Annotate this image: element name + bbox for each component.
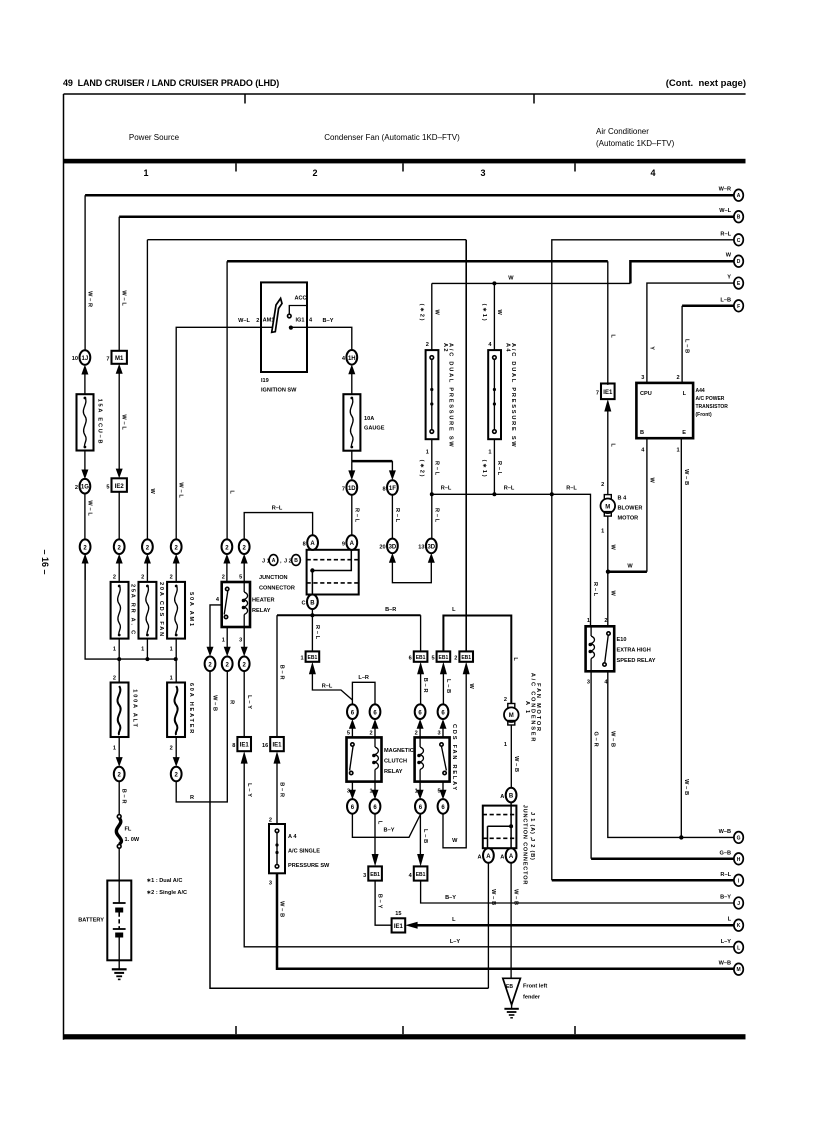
fuse 10A GAUGE: [343, 394, 384, 451]
svg-text:L–B: L–B: [445, 679, 451, 695]
svg-text:B–Y: B–Y: [384, 828, 395, 834]
svg-text:A 1: A 1: [524, 701, 530, 715]
arrow below EB1 5: [440, 662, 451, 705]
svg-text:L: L: [609, 443, 615, 448]
oval 2 heater sw: [222, 539, 233, 554]
label W col3: [149, 488, 155, 495]
svg-text:B 4: B 4: [618, 496, 628, 502]
svg-text:W: W: [609, 544, 615, 551]
wire A4 to bus: [481, 439, 502, 494]
lower JC labels: [522, 805, 536, 886]
page number 16: [40, 549, 50, 574]
bottom tick c: [574, 1026, 576, 1034]
svg-text:W: W: [149, 488, 155, 495]
svg-text:A 4: A 4: [505, 343, 511, 352]
svg-text:A: A: [500, 794, 504, 800]
wire C left W: [147, 240, 466, 540]
wire B W-L top: [119, 217, 734, 351]
band tick c: [574, 163, 576, 171]
svg-text:A/C CONDENSER: A/C CONDENSER: [530, 673, 536, 743]
top band bar: [64, 159, 746, 164]
svg-text:(∗1): (∗1): [481, 304, 487, 323]
wire L vertical to heater relay: [227, 261, 234, 539]
connector 1F: [382, 480, 397, 495]
svg-text:5: 5: [347, 731, 350, 737]
svg-text:2: 2: [504, 697, 507, 703]
bus junction dot col4: [174, 657, 178, 661]
svg-text:FAN MOTOR: FAN MOTOR: [535, 683, 541, 733]
wire L-B CDS to EB1 4: [417, 814, 428, 867]
B-R bus corner down: [277, 615, 285, 737]
svg-text:3: 3: [363, 873, 366, 879]
wire R-L 1D to A9: [352, 495, 360, 536]
label W-L mid col2: [121, 414, 127, 431]
svg-text:1D: 1D: [348, 486, 356, 492]
svg-text:2: 2: [676, 375, 679, 381]
L bus: [443, 607, 511, 704]
svg-text:2: 2: [113, 575, 116, 581]
svg-text:JUNCTION CONNECTOR: JUNCTION CONNECTOR: [522, 805, 528, 886]
arrow into oval2 heater: [173, 757, 180, 767]
svg-text:9: 9: [342, 542, 345, 548]
oval 6 MC coil bottom: [370, 799, 381, 814]
CDS pin3 arrow: [437, 719, 446, 737]
svg-text:– 16 –: – 16 –: [40, 549, 50, 574]
section title Air Conditioner: [596, 127, 675, 148]
svg-text:K: K: [737, 923, 741, 929]
svg-text:A 4: A 4: [288, 834, 297, 840]
svg-text:A: A: [500, 854, 504, 860]
svg-text:L: L: [377, 821, 383, 826]
svg-text:R–L: R–L: [496, 461, 502, 477]
svg-text:(∗1): (∗1): [481, 460, 487, 479]
label L below IE1 7: [601, 443, 615, 488]
oval 6 CDS coil top: [415, 704, 426, 719]
svg-text:SPEED RELAY: SPEED RELAY: [617, 658, 656, 664]
svg-text:B–Y: B–Y: [445, 895, 456, 901]
svg-text:B: B: [310, 600, 315, 606]
svg-text:CPU: CPU: [640, 391, 652, 397]
svg-text:B–R: B–R: [422, 678, 428, 695]
svg-text:8: 8: [382, 486, 385, 492]
svg-text:IE1: IE1: [603, 390, 613, 396]
wire R-L to junction A8: [244, 506, 312, 540]
svg-text:1: 1: [113, 746, 116, 752]
node B: [719, 208, 743, 222]
svg-text:R–L: R–L: [720, 231, 731, 237]
arrow into 1D: [348, 470, 355, 480]
wire IE2 to oval: [118, 492, 120, 540]
A44 AC power transistor: [636, 383, 728, 438]
svg-text:20A CDS FAN: 20A CDS FAN: [158, 582, 164, 638]
arrow into IE1 7: [604, 399, 611, 495]
svg-text:10: 10: [72, 356, 78, 362]
svg-text:TRANSISTOR: TRANSISTOR: [696, 404, 729, 410]
wire A2 to 3D13: [432, 494, 440, 538]
CDS fan relay: [415, 724, 457, 792]
wire W-B heater ground run: [210, 671, 488, 988]
ground symbol: [504, 1005, 518, 1018]
band tick a: [235, 163, 237, 171]
svg-text:J 2 (B): J 2 (B): [529, 838, 535, 861]
svg-text:IGNITION SW: IGNITION SW: [261, 388, 297, 394]
heater relay pin labels top: [222, 575, 242, 581]
svg-text:A: A: [486, 854, 491, 860]
node L: [721, 939, 744, 953]
node H: [719, 850, 743, 864]
svg-text:6: 6: [409, 656, 412, 662]
arrow into IE1 8: [241, 751, 248, 763]
arrow into IE1 16: [274, 751, 281, 824]
heater relay: [222, 582, 275, 627]
svg-text:2: 2: [170, 575, 173, 581]
connector 1D: [342, 480, 357, 495]
svg-text:2: 2: [170, 746, 173, 752]
svg-text:16: 16: [262, 743, 268, 749]
oval 6 MC sw top: [347, 704, 358, 719]
connector EB1 6: [409, 615, 428, 662]
wire L to K circle: [411, 917, 734, 925]
svg-text:1H: 1H: [348, 356, 356, 362]
wire E pin W-B long: [676, 438, 688, 837]
left page border: [63, 94, 65, 1040]
MC pin5 arrow: [347, 719, 356, 737]
fuse 60A HEATER: [167, 676, 194, 763]
svg-text:W–L: W–L: [238, 318, 250, 324]
svg-text:R–L: R–L: [592, 582, 598, 598]
svg-text:∗1 : Dual A/C: ∗1 : Dual A/C: [147, 878, 183, 884]
svg-text:L: L: [728, 917, 732, 923]
svg-text:1: 1: [143, 168, 148, 178]
oval 2 pin1: [222, 657, 233, 672]
svg-text:A/C DUAL PRESSURE SW: A/C DUAL PRESSURE SW: [448, 343, 454, 449]
svg-text:Y: Y: [727, 275, 731, 281]
svg-text:13: 13: [418, 545, 424, 551]
label R horizontal: [190, 795, 194, 801]
svg-text:R: R: [229, 700, 235, 706]
column number 4: [650, 168, 655, 178]
svg-text:2: 2: [75, 485, 78, 491]
blower motor B4: [601, 495, 643, 535]
svg-text:IE1: IE1: [240, 743, 250, 749]
heater pin1 wire: [224, 627, 231, 656]
svg-text:1. 0W: 1. 0W: [125, 837, 140, 843]
arrow into 1G: [81, 451, 88, 480]
svg-text:7: 7: [342, 486, 345, 492]
svg-text:EB1: EB1: [416, 872, 426, 878]
oval 2 col1: [80, 539, 91, 554]
bus dot RL vertical: [550, 492, 554, 496]
fuse 50A AM1: [167, 575, 194, 683]
wire B-Y MC to CDS: [352, 814, 420, 838]
lower junction connector box: [483, 802, 517, 848]
svg-text:L–B: L–B: [684, 339, 690, 355]
svg-text:R–L: R–L: [272, 506, 283, 512]
connector EB1 1: [300, 651, 319, 661]
svg-text:1: 1: [170, 676, 173, 682]
svg-text:Front left: Front left: [523, 984, 547, 990]
svg-text:1: 1: [113, 647, 116, 653]
wire F L-B: [676, 306, 733, 383]
section title Power Source: [129, 133, 180, 142]
svg-text:L: L: [683, 391, 687, 397]
node F: [720, 297, 743, 311]
bottom band bar: [64, 1034, 746, 1039]
svg-text:(∗2): (∗2): [418, 460, 424, 479]
svg-text:L: L: [737, 945, 740, 951]
arrow below EB1 6: [417, 662, 428, 705]
oval 2 pin4: [205, 657, 216, 672]
svg-text:B: B: [737, 215, 741, 221]
svg-text:R–L: R–L: [566, 486, 577, 492]
arrow into M1: [116, 364, 123, 472]
svg-text:Y: Y: [648, 346, 654, 352]
svg-text:60A HEATER: 60A HEATER: [188, 683, 194, 735]
wire B pin to blower junction: [608, 438, 654, 572]
svg-text:B–Y: B–Y: [377, 894, 383, 910]
svg-text:D: D: [737, 259, 741, 265]
svg-text:3: 3: [437, 731, 440, 737]
label B-R above single sw: [269, 782, 285, 823]
svg-text:1J: 1J: [82, 356, 89, 362]
svg-text:W–R: W–R: [719, 187, 731, 193]
svg-text:IG1: IG1: [295, 318, 304, 324]
connector CB: [302, 595, 318, 610]
condenser fan motor A1: [504, 657, 541, 748]
svg-text:F: F: [737, 304, 740, 310]
header rule: [64, 93, 746, 95]
svg-text:PRESSURE SW: PRESSURE SW: [288, 863, 330, 869]
ground EB front left fender: [503, 978, 548, 1005]
connector IE1 8: [232, 737, 251, 751]
svg-text:(Front): (Front): [696, 412, 712, 418]
wire W blower down: [608, 516, 616, 626]
svg-text:W–L: W–L: [86, 500, 92, 517]
oval 2 heater coil: [239, 539, 250, 554]
svg-text:L–B: L–B: [720, 297, 731, 303]
svg-text:W–B: W–B: [513, 889, 519, 907]
svg-text:W–B: W–B: [719, 829, 731, 835]
svg-text:W: W: [627, 564, 633, 570]
label W-L ignition feed: [238, 318, 259, 324]
extra high speed relay E10: [586, 618, 656, 686]
label W on D wire: [508, 276, 514, 282]
svg-text:2: 2: [369, 731, 372, 737]
svg-text:3D: 3D: [427, 544, 435, 550]
svg-text:2: 2: [454, 656, 457, 662]
wire W-B to M circle: [277, 873, 734, 969]
node E: [727, 275, 743, 289]
bottom tick b: [402, 1026, 404, 1034]
svg-text:A: A: [478, 854, 482, 860]
node D: [726, 253, 744, 267]
wire heater sw pin2: [223, 554, 230, 582]
wire L MC coil down: [372, 814, 383, 867]
svg-text:A/C DUAL PRESSURE SW: A/C DUAL PRESSURE SW: [510, 343, 516, 449]
svg-text:MOTOR: MOTOR: [618, 516, 639, 522]
connector A left lower JC: [478, 848, 494, 863]
svg-text:1: 1: [587, 618, 590, 624]
label W-L col4: [178, 482, 184, 499]
note dual single: [147, 878, 188, 896]
svg-text:A 2: A 2: [442, 343, 448, 352]
svg-text:W: W: [452, 838, 458, 844]
heater pin3 wire: [241, 627, 248, 656]
bus junction dot col2: [117, 657, 121, 661]
svg-text:L–R: L–R: [358, 675, 369, 681]
arrow into 1F: [389, 470, 396, 480]
svg-text:G–B: G–B: [719, 850, 731, 856]
connector EB1 4: [409, 866, 428, 880]
svg-text:BLOWER: BLOWER: [618, 506, 643, 512]
fusible link FL 1.0W: [116, 815, 140, 881]
band tick b: [402, 163, 404, 171]
fuse 15A ECU-B: [77, 394, 103, 450]
svg-text:EB1: EB1: [439, 655, 449, 661]
svg-text:(Automatic 1KD–FTV): (Automatic 1KD–FTV): [596, 139, 675, 148]
svg-text:ACC: ACC: [294, 296, 306, 302]
oval 6 CDS sw top: [438, 704, 449, 719]
svg-text:MAGNETIC: MAGNETIC: [384, 748, 414, 754]
pressure switch A4: [488, 343, 516, 449]
svg-text:2: 2: [141, 575, 144, 581]
svg-text:4: 4: [650, 168, 655, 178]
svg-text:EB: EB: [506, 984, 513, 990]
svg-text:J: J: [737, 901, 740, 907]
svg-text:1: 1: [300, 656, 303, 662]
svg-text:M: M: [509, 713, 514, 719]
wire B-Y ignition out: [291, 318, 352, 350]
wire R to heater relay: [176, 671, 227, 802]
oval 2 below 60A: [171, 767, 182, 782]
svg-text:R–L: R–L: [433, 508, 439, 524]
svg-text:G–R: G–R: [593, 732, 599, 749]
heater relay pin labels bottom: [222, 638, 242, 644]
svg-text:J 1 (A) ,: J 1 (A) ,: [529, 812, 535, 839]
connector A8: [303, 535, 318, 550]
svg-text:(Cont. next page): (Cont. next page): [666, 78, 746, 89]
svg-text:R–L: R–L: [353, 508, 359, 524]
svg-text:EB1: EB1: [370, 872, 380, 878]
heater relay pin4 wire: [207, 597, 222, 656]
svg-text:E: E: [682, 430, 686, 436]
fuse 25A RR A.C: [111, 575, 136, 683]
wire W-L to ignition: [176, 327, 261, 539]
arrow below EB1 2: [443, 662, 474, 848]
connector A9: [342, 535, 357, 550]
wire G-R relay pin3: [591, 671, 734, 859]
connector IE1 15: [392, 911, 406, 933]
junction connector caption: [259, 575, 295, 592]
arrow into oval2 col2: [116, 554, 123, 582]
connector 1G: [75, 479, 90, 494]
CDS pin2 arrow: [415, 719, 424, 737]
svg-text:1: 1: [170, 647, 173, 653]
svg-text:10A: 10A: [364, 416, 374, 422]
svg-text:2: 2: [604, 618, 607, 624]
svg-text:1G: 1G: [81, 485, 89, 491]
CDS pin5 arrow: [437, 782, 446, 800]
svg-text:1: 1: [601, 529, 604, 535]
svg-text:A: A: [350, 541, 355, 547]
svg-text:M1: M1: [115, 356, 124, 362]
3D U link: [389, 553, 435, 583]
svg-text:15A ECU–B: 15A ECU–B: [97, 399, 103, 446]
svg-text:7: 7: [106, 357, 109, 363]
svg-text:25A RR A. C: 25A RR A. C: [130, 584, 136, 636]
svg-text:L–Y: L–Y: [721, 939, 732, 945]
header tick 2: [533, 94, 535, 104]
CDS pin1 arrow: [415, 782, 424, 800]
svg-text:JUNCTION: JUNCTION: [259, 575, 288, 581]
svg-text:100A ALT: 100A ALT: [132, 689, 138, 728]
svg-text:W–B: W–B: [279, 901, 285, 919]
oval 6 CDS sw bottom: [438, 799, 449, 814]
MC pin2 arrow: [369, 719, 378, 737]
svg-text:L–Y: L–Y: [246, 695, 252, 711]
wire heater coil pin5: [241, 554, 248, 582]
oval 2 below ALT: [114, 767, 125, 782]
svg-text:W–B: W–B: [212, 695, 218, 713]
svg-text:L: L: [609, 334, 615, 339]
pressure switch A2: [426, 343, 454, 449]
connector M1: [106, 351, 127, 364]
svg-text:3D: 3D: [389, 544, 397, 550]
AC single pressure switch: [269, 824, 330, 887]
svg-text:W–R: W–R: [87, 291, 93, 309]
label W-L below 1G: [85, 494, 93, 540]
bottom tick a: [235, 1026, 237, 1034]
blower junction dot: [606, 570, 610, 574]
svg-text:1F: 1F: [389, 486, 396, 492]
svg-text:R–L: R–L: [504, 486, 515, 492]
svg-text:R–L: R–L: [394, 508, 400, 524]
svg-text:A: A: [509, 854, 514, 860]
wire W-B condenser down: [511, 725, 519, 788]
svg-text:2: 2: [256, 318, 259, 324]
connector IE1 7: [596, 384, 615, 400]
connector 3D left: [379, 539, 397, 554]
svg-text:W–B: W–B: [683, 779, 689, 797]
svg-text:2: 2: [415, 731, 418, 737]
svg-text:R–L: R–L: [314, 625, 320, 641]
svg-text:L: L: [512, 657, 518, 662]
svg-text:C: C: [737, 238, 741, 244]
svg-text:FL: FL: [125, 827, 132, 833]
fuse 20A CDS FAN: [139, 575, 164, 660]
svg-text:B–R: B–R: [121, 789, 127, 806]
svg-text:GAUGE: GAUGE: [364, 426, 385, 432]
B-R bus: [277, 607, 421, 615]
svg-text:L–Y: L–Y: [450, 939, 461, 945]
svg-text:7: 7: [596, 391, 599, 397]
svg-text:W–L: W–L: [121, 414, 127, 431]
node K: [728, 917, 744, 931]
svg-text:1: 1: [426, 450, 429, 456]
svg-text:G: G: [737, 835, 741, 841]
connector IE2: [106, 478, 127, 492]
junction connector box: [307, 550, 359, 595]
svg-text:B: B: [294, 558, 298, 564]
column number 3: [480, 168, 485, 178]
svg-text:B: B: [640, 430, 644, 436]
svg-text:2: 2: [222, 575, 225, 581]
svg-text:W–B: W–B: [490, 889, 496, 907]
junction dot W-B: [679, 835, 683, 839]
svg-text:A/C POWER: A/C POWER: [696, 396, 725, 402]
svg-text:A: A: [737, 193, 741, 199]
svg-text:R–L: R–L: [720, 872, 731, 878]
